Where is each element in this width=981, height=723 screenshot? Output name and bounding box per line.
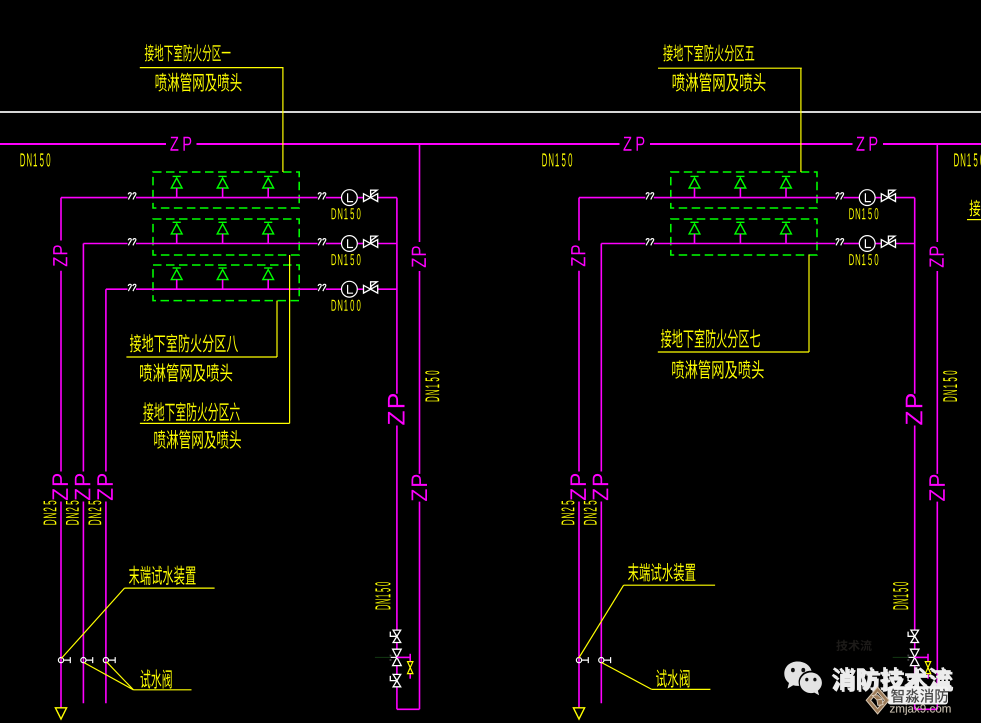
leader <box>658 255 809 353</box>
test valve <box>576 657 588 663</box>
wire: test riser DN25 #2 U1 <box>82 244 84 704</box>
signal gate valve 1 <box>390 630 400 642</box>
leader <box>126 301 277 357</box>
alarm/flow indicator circle L <box>859 236 875 252</box>
net label ZP (vertical) <box>412 475 427 501</box>
leader <box>140 255 290 423</box>
net label ZP (vertical, upper) <box>53 245 67 266</box>
signal butterfly valve <box>881 190 895 201</box>
value label DN25 (vertical) <box>561 501 574 525</box>
value label DN150 on main <box>954 153 981 166</box>
watermark: zm logo <box>866 687 889 714</box>
value label DN25 (vertical) <box>66 501 79 525</box>
leader <box>140 68 284 172</box>
watermark: wechat logo <box>784 662 822 696</box>
pipe break marks <box>128 193 136 200</box>
wire: branch pipe row 1 U2 <box>579 197 915 199</box>
wire: test riser DN25 #3 U1 <box>105 289 107 703</box>
signal gate valve 3 <box>908 674 918 686</box>
wire: collector pipe <box>915 198 938 710</box>
net label ZP (vertical) <box>906 394 923 425</box>
value label DN150 (vertical) <box>375 582 390 609</box>
signal butterfly valve <box>364 190 378 201</box>
value label DN25 (vertical) <box>88 501 101 525</box>
value label DN150 on main <box>542 153 572 166</box>
net label ZP (vertical) <box>929 475 944 501</box>
value label DN100 <box>332 300 361 311</box>
value label DN150 (vertical) <box>893 582 908 609</box>
wire: main ZP supply main <box>0 143 981 145</box>
wire: test riser DN25 #2 U2 <box>600 244 602 704</box>
net label ZP (vertical) <box>593 474 608 500</box>
test valve <box>103 657 115 663</box>
callout: zone 6 label <box>143 402 239 421</box>
sprinkler zone box U2-1 <box>671 172 817 208</box>
value label DN25 (vertical) <box>584 501 597 525</box>
sprinkler zone box U1-3 <box>153 265 299 301</box>
net label ZP (vertical) <box>97 474 112 500</box>
net label ZP (vertical) <box>75 474 90 500</box>
alarm/flow indicator circle L <box>859 190 875 206</box>
sprinkler head <box>781 176 792 197</box>
sprinkler head <box>689 222 700 243</box>
sprinkler head <box>735 176 746 197</box>
wire: white reference line <box>0 111 981 113</box>
watermark: faint ghost <box>836 640 871 651</box>
drain arrow <box>573 708 584 719</box>
net label ZP (vertical) <box>52 474 67 500</box>
value label DN150 (vertical) <box>943 371 957 402</box>
alarm/flow indicator circle L <box>342 281 358 297</box>
sprinkler head <box>689 176 700 197</box>
sprinkler zone box U1-2 <box>153 219 299 255</box>
wire: collector pipe <box>397 198 420 710</box>
pipe break marks <box>646 239 654 246</box>
sprinkler zone box U2-2 <box>671 219 817 255</box>
callout: test valve label U1 <box>140 669 171 688</box>
callout: zone 1 label <box>145 44 231 61</box>
wire: test riser DN25 #1 U2 <box>578 198 580 708</box>
signal butterfly valve <box>364 282 378 293</box>
net label ZP (vertical) <box>388 394 405 425</box>
sprinkler head <box>217 222 228 243</box>
callout: end test device U1 <box>129 566 196 585</box>
callout: partial zone label at right edge <box>970 200 981 217</box>
watermark: zhimiao badge <box>888 686 949 704</box>
wire: branch pipe row 2 U2 <box>601 243 914 245</box>
wire: branch pipe row 3 U1 <box>106 288 397 290</box>
signal butterfly valve <box>364 236 378 247</box>
net label ZP (vertical, upper) <box>930 246 944 267</box>
net label ZP on main <box>170 137 191 151</box>
sprinkler head <box>217 176 228 197</box>
watermark: big title <box>833 669 953 692</box>
test drain valve (yellow) <box>408 662 413 674</box>
wire: branch pipe row 1 U1 <box>61 197 397 199</box>
sprinkler head <box>735 222 746 243</box>
pipe break marks <box>646 193 654 200</box>
pipe break marks <box>128 239 136 246</box>
sprinkler head <box>171 176 182 197</box>
watermark: url <box>890 704 951 715</box>
signal butterfly valve <box>881 236 895 247</box>
callout: zone 7 label <box>661 329 760 348</box>
sprinkler head <box>171 222 182 243</box>
callout: test valve label U2 <box>656 669 689 687</box>
alarm/flow indicator circle L <box>342 236 358 252</box>
value label DN150 <box>849 208 878 219</box>
point marker <box>893 655 915 661</box>
signal gate valve 3 <box>390 674 400 686</box>
gate valve 2 <box>910 649 919 665</box>
wire: branch pipe row 2 U1 <box>83 243 397 245</box>
leader <box>658 68 802 172</box>
wire: test riser DN25 #1 U1 <box>60 198 62 708</box>
wire: drain branch <box>397 654 410 679</box>
net label ZP on main <box>623 137 644 151</box>
sprinkler head <box>263 222 274 243</box>
net label ZP (vertical, upper) <box>412 246 426 267</box>
pipe break marks <box>128 284 136 291</box>
callout: end test device U2 <box>628 563 695 582</box>
test valve <box>58 657 70 663</box>
sprinkler head <box>217 268 228 289</box>
signal gate valve 1 <box>908 630 918 642</box>
wire: main riser ZP <box>419 144 421 709</box>
sprinkler head <box>263 268 274 289</box>
net label ZP (vertical) <box>570 474 585 500</box>
callout: zone 8 label <box>130 334 238 352</box>
gate valve 2 <box>393 649 402 665</box>
wire: main riser ZP <box>936 144 938 709</box>
net label ZP on main <box>856 137 877 151</box>
value label DN150 <box>849 254 878 265</box>
sprinkler head <box>263 176 274 197</box>
value label DN25 (vertical) <box>43 501 56 525</box>
drain arrow <box>55 708 66 719</box>
value label DN150 on main <box>20 153 50 166</box>
sprinkler head <box>781 222 792 243</box>
test valve <box>599 657 611 663</box>
callout: zone 5 label <box>663 44 754 61</box>
value label DN150 <box>332 254 361 265</box>
test valve <box>81 657 93 663</box>
sprinkler head <box>171 268 182 289</box>
test drain valve (yellow) <box>925 662 930 674</box>
net label ZP (vertical, upper) <box>571 245 585 266</box>
wire: drain branch <box>915 654 928 679</box>
point marker <box>375 655 397 661</box>
value label DN150 <box>332 208 361 219</box>
value label DN150 (vertical) <box>425 371 439 402</box>
alarm/flow indicator circle L <box>342 190 358 206</box>
sprinkler zone box U1-1 <box>153 172 299 208</box>
